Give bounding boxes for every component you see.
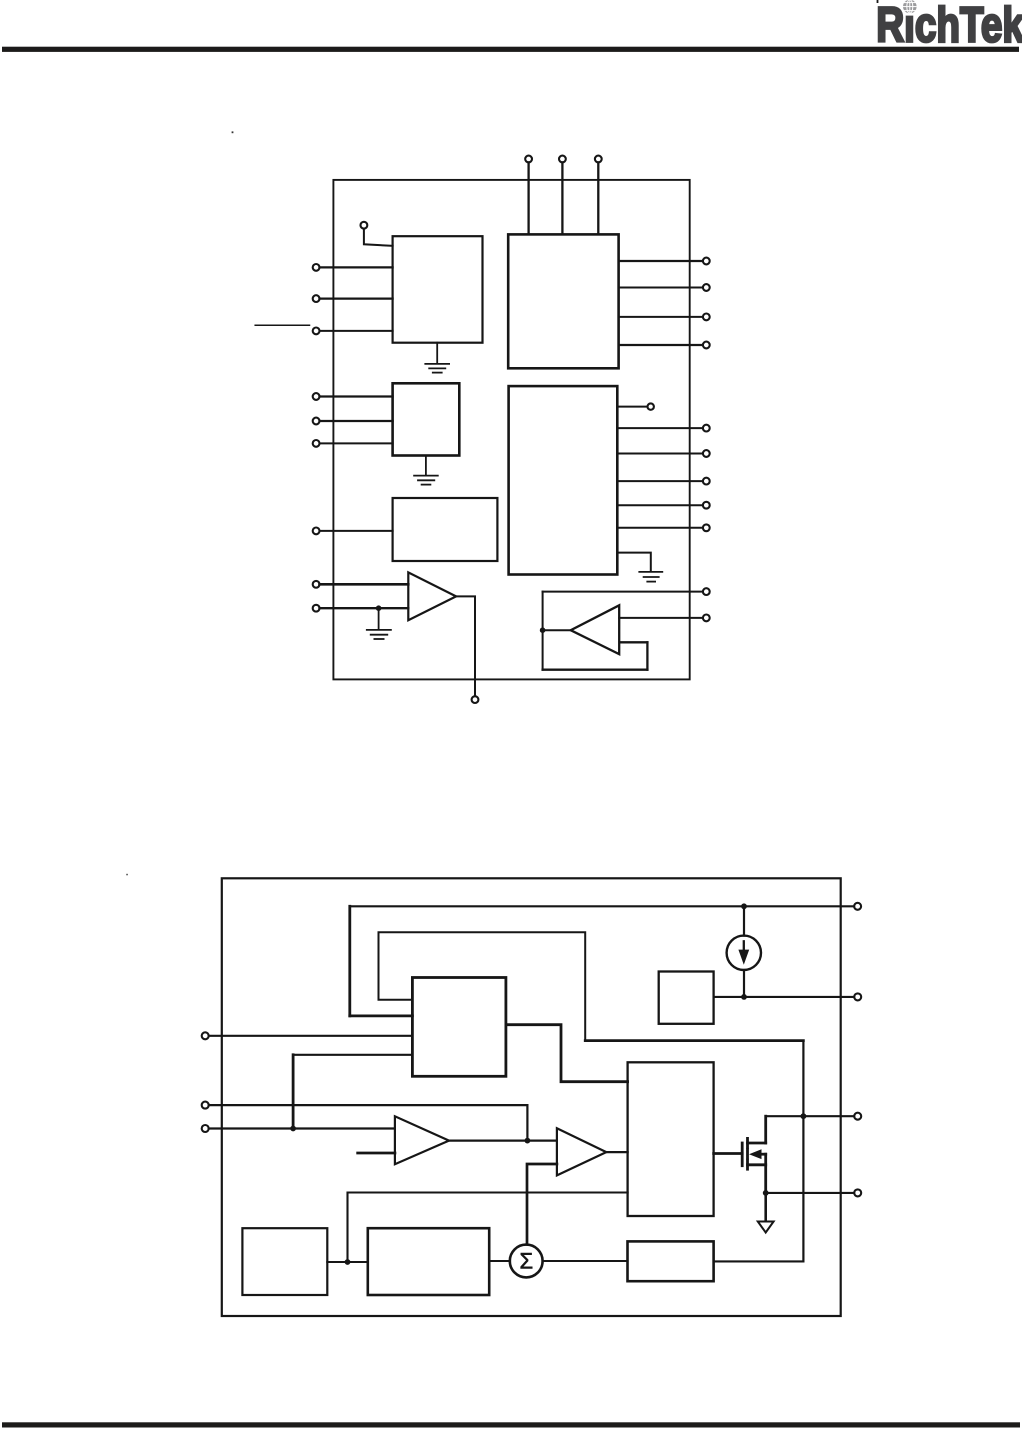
wire buffer output	[543, 629, 571, 631]
wire box5 out6	[617, 453, 703, 455]
reference stub into A3	[358, 1152, 395, 1155]
wire feedback top to terminal	[543, 591, 703, 593]
logo top tick mark	[877, 0, 879, 3]
junction dot on in- wire	[376, 605, 382, 611]
wire feedback bottom	[543, 669, 648, 671]
terminal circle enable (box1 top)	[361, 222, 368, 229]
op-amp A3 (error amp)	[395, 1116, 449, 1164]
terminal circle T3	[202, 1125, 209, 1132]
wire gate drive boxD to Q1	[714, 1152, 743, 1155]
wire in+ to A1	[320, 583, 409, 586]
block boxF (reference)	[659, 972, 714, 1024]
wire boxA output to boxD	[506, 1025, 628, 1082]
wire T3 branch up	[292, 1055, 295, 1129]
block boxE (current sense)	[628, 1241, 714, 1281]
terminal circle out4	[703, 342, 710, 349]
ground below box1	[425, 343, 449, 373]
summer sigma circle	[510, 1245, 543, 1278]
block boxC (slope comp)	[368, 1228, 489, 1295]
wire in4 to box2	[320, 395, 393, 397]
terminal circle reference out	[854, 993, 861, 1000]
wire in2 to box1	[320, 298, 393, 300]
terminal circle T1	[202, 1032, 209, 1039]
block box3 (oscillator)	[393, 498, 498, 561]
wire summer to boxE	[543, 1260, 628, 1262]
terminal circle in3	[313, 328, 320, 335]
block boxD (driver logic)	[628, 1062, 714, 1216]
header rule	[2, 47, 1019, 52]
terminal circle in-	[313, 605, 320, 612]
wire T1 to boxA	[209, 1035, 413, 1037]
svg-text:RichTek: RichTek	[876, 0, 1022, 52]
junction dot drain node	[801, 1113, 807, 1119]
wire in6 to box2	[320, 442, 393, 444]
terminal circle top pin 3	[595, 156, 602, 163]
terminal circle in5	[313, 418, 320, 425]
terminal circle buffer in	[703, 615, 710, 622]
block boxA (central control)	[412, 978, 506, 1077]
terminal circle in4	[313, 393, 320, 400]
terminal circle top pin 2	[559, 156, 566, 163]
wire feedback into buffer	[619, 641, 647, 643]
terminal circle out3	[703, 314, 710, 321]
block box5 (bottom-right register)	[509, 386, 618, 574]
block box2 (mid-left)	[393, 383, 460, 455]
ground below A1 input	[367, 608, 391, 639]
wire box5 out0 (internal)	[617, 406, 647, 408]
wire top pin 2	[561, 162, 563, 234]
wire top pin 3	[597, 162, 599, 234]
wire T2 across and down to comparator node	[209, 1105, 528, 1141]
wire loop horizontal to SW vertical	[585, 1039, 803, 1042]
terminal circle out1	[703, 258, 710, 265]
terminal circle top pin 1	[525, 156, 532, 163]
terminal circle bottom output	[472, 696, 479, 703]
stray period dot (middle)	[126, 874, 128, 876]
wire in1 to box1	[320, 266, 393, 268]
wire boxF to terminal	[714, 996, 855, 998]
wire T3 branch into boxA	[293, 1054, 412, 1056]
block box1 (top-left)	[393, 236, 483, 343]
junction dot VIN rail	[741, 903, 747, 909]
wire in3 to box1	[320, 330, 393, 332]
op-amp A1 (diagram 1)	[408, 572, 456, 620]
terminal circle VIN	[854, 903, 861, 910]
wire box4 out1	[619, 260, 703, 262]
wire buffer input from terminal	[619, 617, 703, 619]
logo globe icon (dot of i)	[903, 0, 917, 16]
wire box5 out8	[617, 504, 703, 506]
wire box4 out4	[619, 344, 703, 346]
op-amp A4 (PWM comparator)	[557, 1128, 606, 1175]
junction dot source node	[763, 1190, 769, 1196]
ground below box2	[414, 456, 438, 485]
wire box5 to ground	[617, 553, 651, 571]
terminal circle source sense	[854, 1189, 861, 1196]
wire A1 output down to bottom pin	[456, 596, 475, 696]
signal ground triangle	[758, 1222, 774, 1233]
terminal circle SW	[854, 1113, 861, 1120]
footer rule	[2, 1422, 1020, 1427]
ground right of box5	[639, 572, 662, 582]
wire sigma up to comparator lower input	[527, 1164, 557, 1244]
wire in- to A1	[320, 607, 409, 609]
terminal circle in2	[313, 295, 320, 302]
wire enable to box1	[364, 229, 393, 246]
wire box5 out7	[617, 480, 703, 482]
wire top pin 1	[527, 162, 529, 234]
wire VIN into boxA	[350, 1015, 413, 1018]
IC boundary box (diagram 1)	[333, 180, 689, 680]
terminal circle out5	[703, 425, 710, 432]
wire drain node to terminal	[766, 1115, 855, 1117]
wire boxB to boxC	[327, 1261, 368, 1263]
wire T3 to error amp	[209, 1127, 395, 1129]
terminal circle T2	[202, 1102, 209, 1109]
terminal circle in+	[313, 581, 320, 588]
block box4 (top-right)	[508, 234, 618, 368]
junction dot buffer output	[540, 627, 546, 633]
wire box4 out2	[619, 287, 703, 289]
wire boxC to summer	[489, 1260, 510, 1262]
wire nested loop from boxA to SW node	[379, 932, 586, 1040]
terminal circle in7	[313, 528, 320, 535]
stray period dot (top)	[232, 131, 234, 133]
wire comparator output to boxD	[606, 1151, 627, 1153]
wire source to signal ground	[764, 1193, 767, 1222]
wire VIN top rail	[350, 905, 854, 907]
svg-text:Σ: Σ	[519, 1249, 533, 1274]
wire in7 to box3	[320, 530, 393, 532]
wire boxE to SW vertical	[714, 1260, 804, 1262]
Q1 body arrow	[749, 1149, 762, 1159]
junction dot T3 wire	[290, 1126, 296, 1132]
junction dot comparator input	[525, 1138, 531, 1144]
terminal circle out0 internal	[648, 403, 654, 409]
junction dot slope node	[345, 1259, 351, 1265]
junction dot current source output	[741, 994, 747, 1000]
terminal circle out8	[703, 502, 710, 509]
wire box4 out3	[619, 316, 703, 318]
block boxB (oscillator)	[242, 1228, 327, 1295]
terminal circle out6	[703, 450, 710, 457]
wire SW vertical	[802, 1041, 804, 1262]
terminal circle out9	[703, 524, 710, 531]
wire boxD lower input from slope node	[348, 1193, 628, 1263]
op-amp A2 (left-pointing buffer)	[571, 605, 620, 654]
wire box5 out5	[617, 427, 703, 429]
terminal circle in6	[313, 440, 320, 447]
terminal circle out7	[703, 478, 710, 485]
terminal circle out2	[703, 284, 710, 291]
IC boundary box (diagram 2)	[222, 878, 841, 1316]
terminal circle in1	[313, 264, 320, 271]
wire source node to terminal	[766, 1192, 855, 1194]
wire A3 output to comparator	[449, 1139, 557, 1141]
logo RichTek wordmark	[876, 0, 1022, 52]
wire in5 to box2	[320, 420, 393, 422]
transistor Q1 (NMOS)	[742, 1116, 766, 1193]
stray label dash	[255, 324, 309, 326]
wire VIN rail down left side	[348, 906, 351, 1016]
wire feedback left vertical	[542, 592, 544, 670]
terminal circle fb top	[703, 588, 710, 595]
current source I1	[743, 906, 745, 935]
wire box5 out9	[617, 527, 703, 529]
wire feedback right vertical	[646, 642, 648, 669]
